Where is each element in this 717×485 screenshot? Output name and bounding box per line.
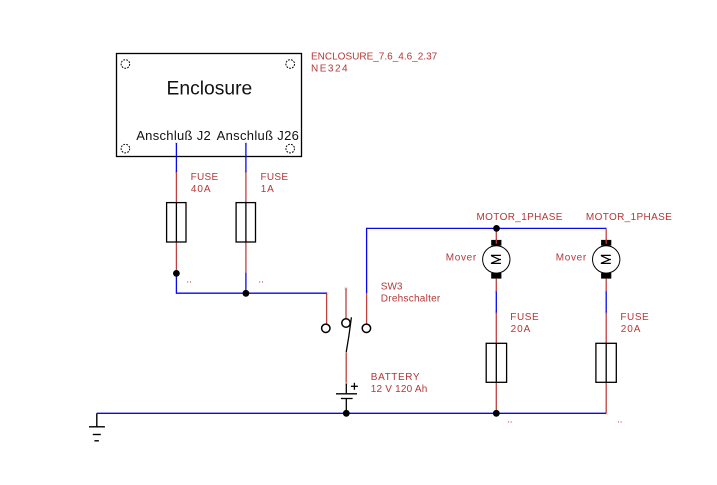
- svg-text:SW3: SW3: [381, 282, 403, 293]
- svg-text:ENCLOSURE_7.6_4.6_2.37: ENCLOSURE_7.6_4.6_2.37: [311, 51, 438, 62]
- svg-text:Enclosure: Enclosure: [167, 78, 253, 99]
- svg-text:1A: 1A: [261, 184, 275, 195]
- svg-text:..: ..: [186, 275, 192, 286]
- svg-text:MOTOR_1PHASE: MOTOR_1PHASE: [477, 212, 563, 223]
- svg-text:20A: 20A: [621, 324, 642, 335]
- svg-text:Mover: Mover: [446, 253, 477, 264]
- svg-text:FUSE: FUSE: [261, 172, 289, 183]
- svg-text:40A: 40A: [191, 184, 212, 195]
- svg-text:Mover: Mover: [556, 253, 587, 264]
- svg-text:12 V 120 Ah: 12 V 120 Ah: [371, 384, 428, 395]
- svg-text:Anschluß J26: Anschluß J26: [217, 128, 300, 143]
- svg-text:Anschluß J2: Anschluß J2: [136, 128, 211, 143]
- svg-text:MOTOR_1PHASE: MOTOR_1PHASE: [586, 212, 672, 223]
- svg-text:20A: 20A: [511, 324, 532, 335]
- svg-text:FUSE: FUSE: [191, 172, 219, 183]
- svg-text:FUSE: FUSE: [510, 312, 539, 323]
- svg-text:..: ..: [258, 275, 264, 286]
- svg-text:BATTERY: BATTERY: [371, 372, 420, 383]
- svg-text:..: ..: [617, 414, 623, 425]
- svg-text:Drehschalter: Drehschalter: [381, 294, 441, 305]
- svg-text:FUSE: FUSE: [620, 312, 649, 323]
- svg-text:..: ..: [507, 414, 513, 425]
- svg-text:NE324: NE324: [311, 64, 349, 75]
